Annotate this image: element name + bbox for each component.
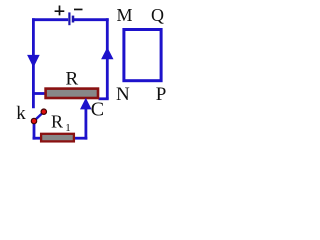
resistor R body (rheostat) [46,89,98,98]
wire: switch lower vertical [33,121,36,140]
switch k pivot contact (red dot) [31,118,36,123]
wire top: battery loop top side, left part [32,18,68,21]
svg-text:C: C [91,99,104,121]
wire right: vertical from top corner down to resistor R right end [106,18,109,99]
svg-text:M: M [117,5,133,25]
label + (battery positive) [55,6,65,16]
wire left: vertical from top corner down to switch [32,18,35,108]
svg-text:Q: Q [151,5,164,25]
switch k free contact (red dot) [41,109,46,114]
wire: bottom branch horizontal left part (switch to R1) [33,137,41,140]
current arrow down on left wire [27,55,40,68]
svg-text:P: P [156,84,167,105]
switch k lever (open blade) [34,112,44,121]
resistor R1 body [41,134,74,142]
wire: bottom branch horizontal right part (R1 to slider stem) [73,137,87,140]
galvanometer frame rectangle MQPN [124,30,161,81]
wire stub: left wire to resistor R left end [32,92,46,95]
battery B1 positive plate (tall) [68,12,70,25]
svg-text:k: k [16,103,26,124]
svg-text:R: R [66,69,79,90]
svg-text:1: 1 [65,122,71,134]
wire stub: right wire to resistor R right end [99,97,109,100]
current arrow up on right wire [101,47,113,59]
slider arrow up to C [80,98,92,110]
battery B1 negative plate (short thick) [72,16,75,23]
svg-text:N: N [116,84,130,105]
label - (battery negative) [74,9,83,11]
wire: slider stem vertical [85,108,88,140]
wire top: battery loop top side, right part [74,18,109,21]
svg-text:R: R [51,112,63,132]
